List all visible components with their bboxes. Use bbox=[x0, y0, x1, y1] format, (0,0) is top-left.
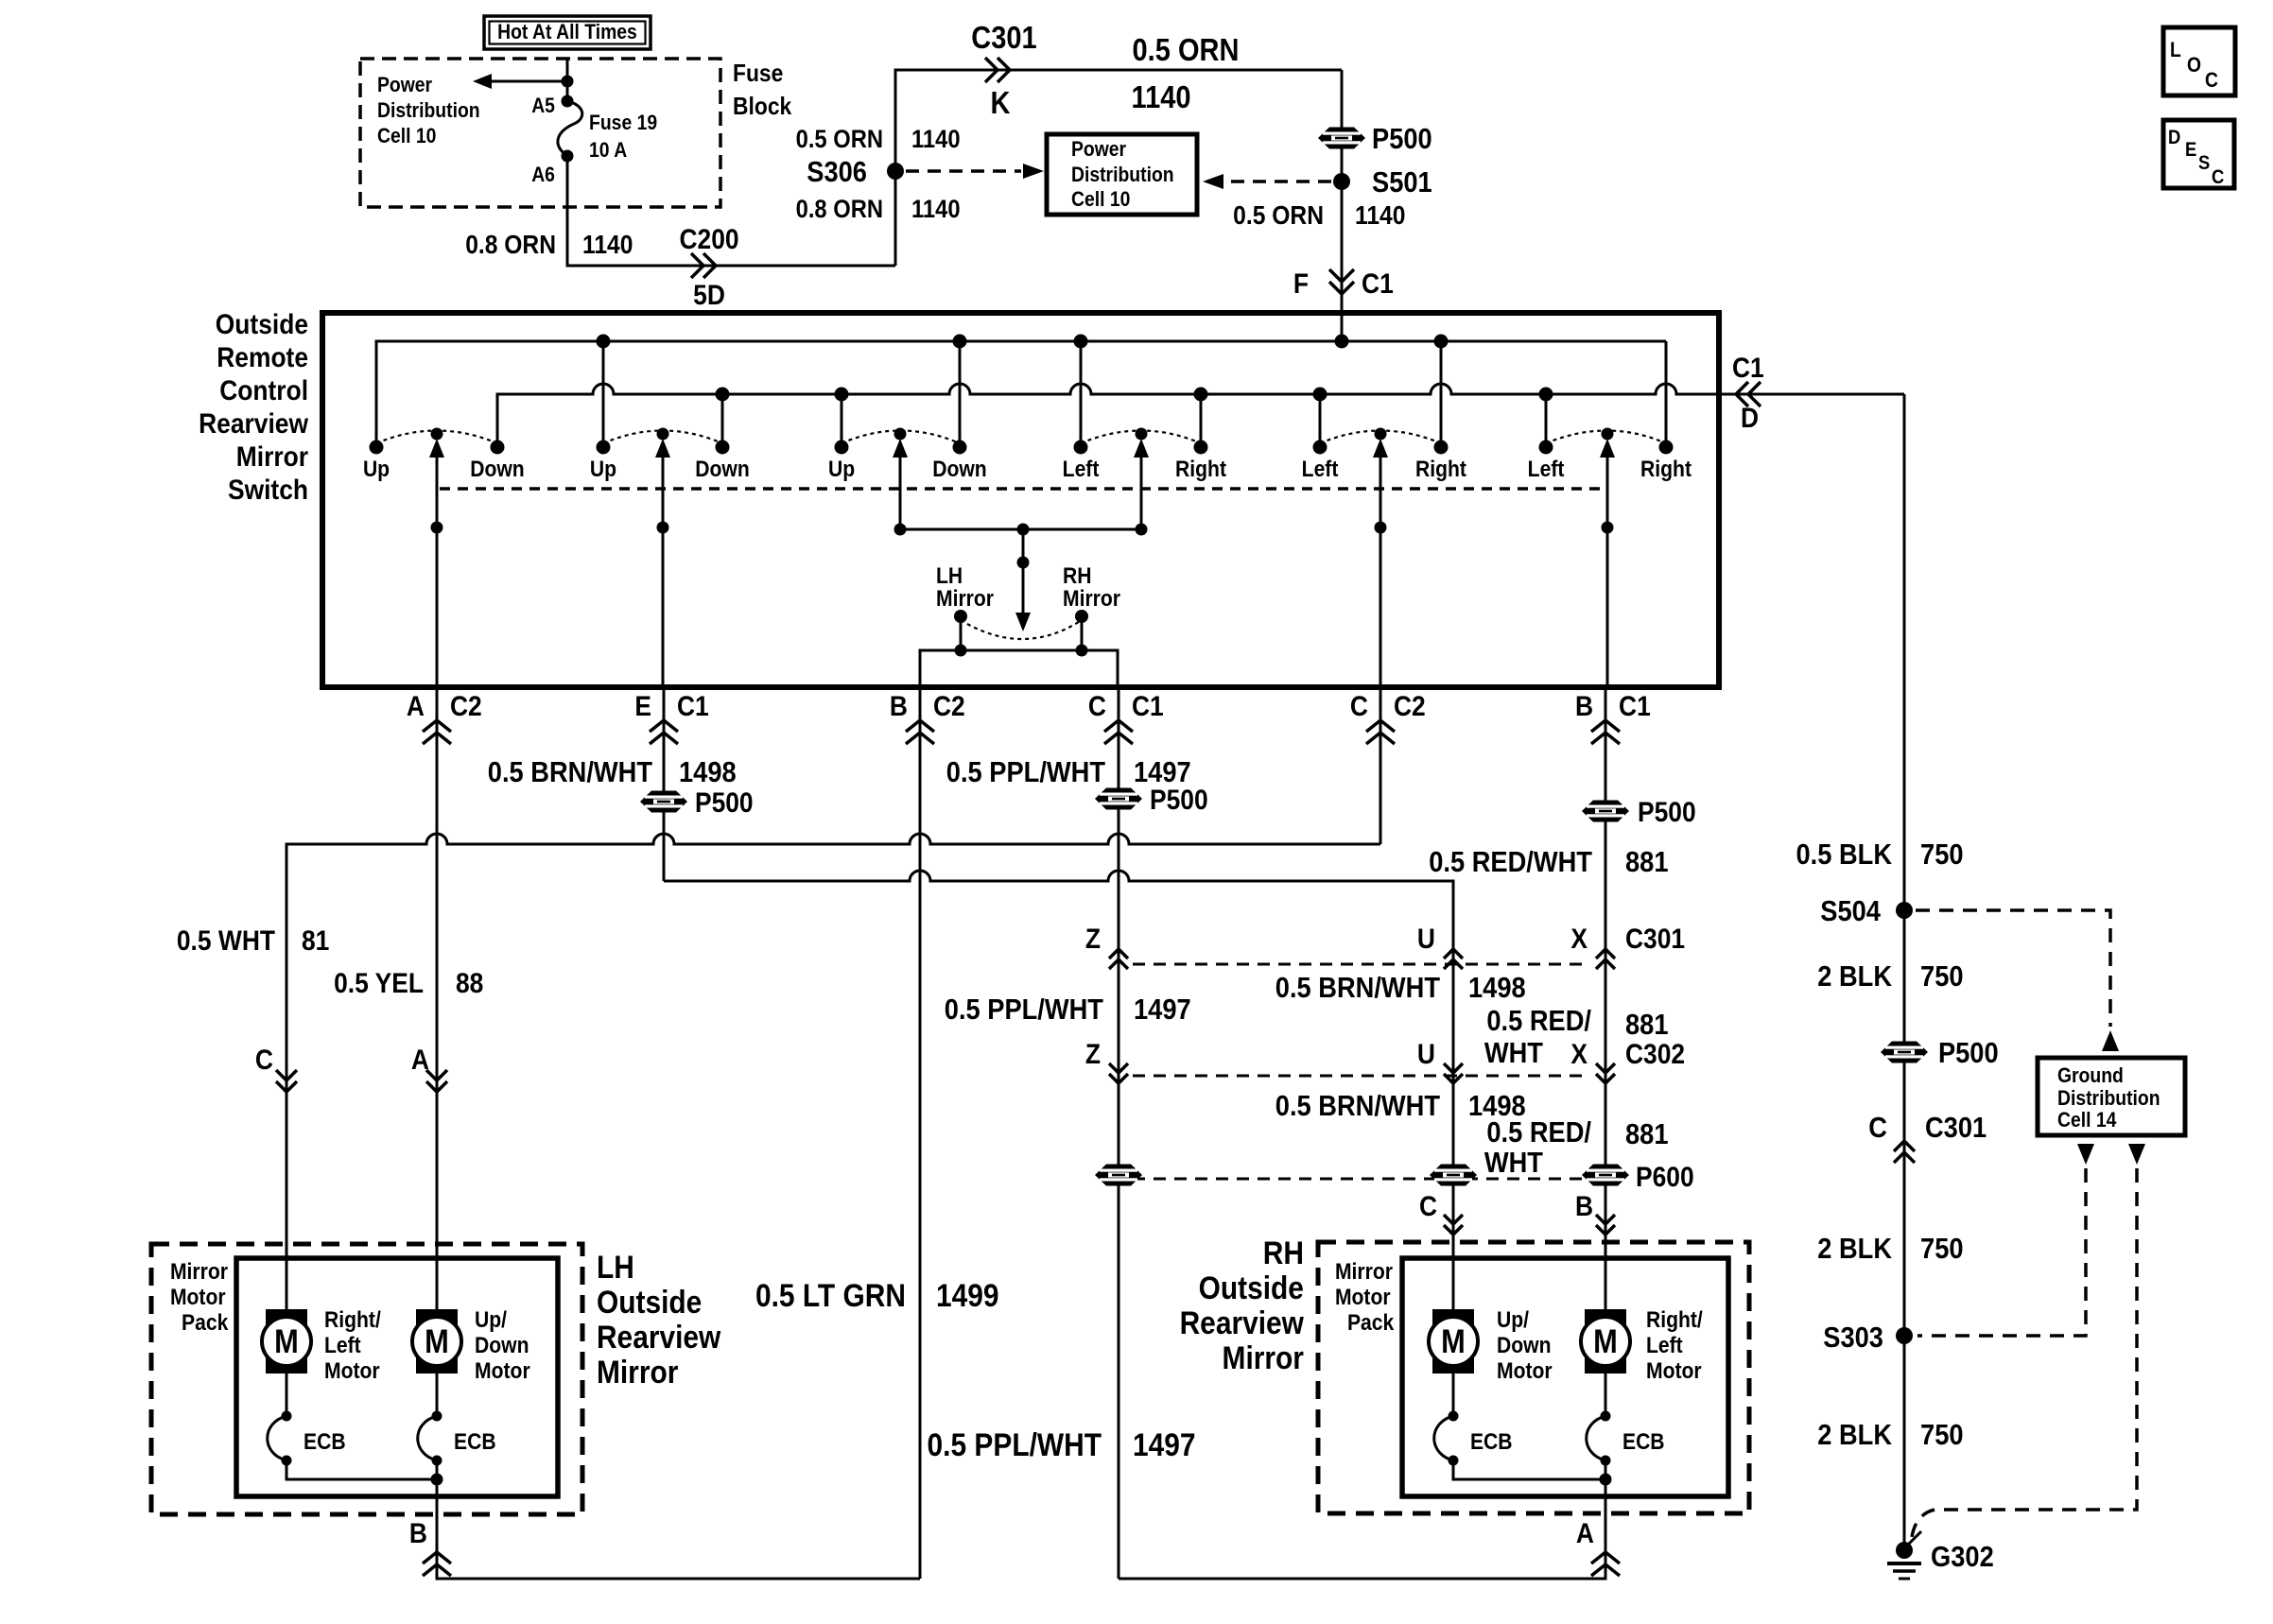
DESC box bbox=[2163, 120, 2234, 188]
svg-text:C1: C1 bbox=[1362, 267, 1394, 299]
LH/RH selector wiper (down) bbox=[1022, 529, 1025, 614]
svg-text:750: 750 bbox=[1920, 960, 1964, 993]
svg-text:B: B bbox=[1575, 1189, 1593, 1221]
bus 1 drop to Right5 bbox=[1440, 341, 1443, 447]
bus 1 drop to Up2 bbox=[602, 341, 605, 447]
wire motor3 to ECB bbox=[1452, 1373, 1455, 1416]
dashed ground distribution to S303 bbox=[1917, 1168, 2086, 1336]
bus 1 right end drop to Right6 bbox=[1665, 341, 1668, 447]
connector C1 pin D chevrons bbox=[1736, 382, 1748, 406]
svg-text:1140: 1140 bbox=[911, 126, 961, 154]
wiper arm pin E (up/down) bbox=[662, 456, 665, 687]
svg-text:750: 750 bbox=[1920, 838, 1964, 871]
pin C C1 wire (0.5 PPL/WHT 1497) bbox=[1118, 687, 1120, 1579]
wiper common bar groups 3-4 bbox=[900, 528, 1141, 531]
svg-text:Rearview: Rearview bbox=[1180, 1304, 1304, 1340]
pin chevrons below box bbox=[423, 720, 451, 732]
svg-text:0.5 BRN/WHT: 0.5 BRN/WHT bbox=[1275, 972, 1440, 1004]
svg-text:C2: C2 bbox=[1394, 689, 1426, 721]
svg-text:B: B bbox=[1575, 689, 1593, 721]
svg-text:Motor: Motor bbox=[324, 1358, 380, 1384]
svg-text:Up: Up bbox=[590, 457, 616, 482]
selector output U-bar bbox=[920, 650, 1118, 687]
svg-text:Pack: Pack bbox=[1347, 1310, 1395, 1336]
dashed S504 to ground distribution bbox=[1916, 910, 2110, 1027]
svg-text:1498: 1498 bbox=[1468, 972, 1526, 1004]
svg-text:S501: S501 bbox=[1372, 166, 1432, 199]
connector C301 chevrons (top) bbox=[998, 58, 1010, 82]
svg-text:Fuse 19: Fuse 19 bbox=[589, 112, 657, 134]
svg-text:0.5 BRN/WHT: 0.5 BRN/WHT bbox=[1275, 1090, 1440, 1122]
svg-text:Z: Z bbox=[1085, 922, 1101, 954]
bus 2 drop to Up3 bbox=[841, 394, 843, 447]
svg-text:881: 881 bbox=[1625, 846, 1669, 878]
LH mirror motor pack box bbox=[236, 1258, 558, 1496]
switch pivot nodes bbox=[431, 428, 443, 441]
svg-text:C2: C2 bbox=[450, 689, 482, 721]
svg-text:C: C bbox=[1419, 1189, 1437, 1221]
svg-text:Left: Left bbox=[1528, 457, 1565, 482]
svg-text:Motor: Motor bbox=[1497, 1358, 1553, 1384]
svg-text:C: C bbox=[1350, 689, 1368, 721]
svg-text:RH: RH bbox=[1063, 563, 1091, 589]
svg-text:WHT: WHT bbox=[1484, 1037, 1543, 1069]
svg-text:0.5 RED/: 0.5 RED/ bbox=[1486, 1116, 1591, 1149]
dashed arrow S306 to Power Distribution Cell 10 bbox=[906, 169, 1021, 173]
svg-text:S: S bbox=[2198, 152, 2210, 174]
wire from fuse A6 down to C200 run bbox=[567, 156, 895, 266]
outside remote control rearview mirror switch box bbox=[322, 313, 1719, 687]
svg-text:S504: S504 bbox=[1820, 895, 1881, 927]
splice S303 bbox=[1896, 1327, 1913, 1344]
RH mirror motor pack box bbox=[1402, 1258, 1728, 1496]
svg-text:B: B bbox=[890, 689, 908, 721]
wire S306 riser bbox=[895, 70, 1342, 266]
pin B C1 wire (0.5 RED/WHT 881) bbox=[1605, 687, 1607, 1310]
svg-text:Rearview: Rearview bbox=[199, 406, 309, 439]
Hot At All Times box bbox=[484, 16, 651, 49]
svg-text:M: M bbox=[1441, 1322, 1466, 1359]
LH up/down motor M2 bbox=[412, 1309, 461, 1373]
chevron A RH mirror bbox=[1591, 1552, 1620, 1564]
connector P600 on PPL/WHT wire bbox=[1095, 1165, 1142, 1186]
svg-text:G302: G302 bbox=[1931, 1541, 1994, 1573]
svg-text:C: C bbox=[255, 1043, 273, 1075]
svg-text:Z: Z bbox=[1085, 1037, 1101, 1069]
C302 chevrons Z U X bbox=[1109, 1074, 1128, 1083]
svg-text:1140: 1140 bbox=[1355, 200, 1405, 231]
svg-text:Left: Left bbox=[324, 1333, 361, 1358]
svg-text:C1: C1 bbox=[677, 689, 709, 721]
svg-text:Pack: Pack bbox=[182, 1310, 229, 1336]
svg-text:C301: C301 bbox=[1625, 922, 1685, 954]
svg-text:0.5 WHT: 0.5 WHT bbox=[177, 924, 275, 956]
svg-text:P500: P500 bbox=[1372, 123, 1432, 155]
splice S306 bbox=[887, 163, 904, 180]
connector P500 on B C1 wire bbox=[1582, 801, 1629, 822]
Power Distribution Cell 10 box bbox=[1047, 134, 1197, 215]
wire from Hot At All Times into fuse bbox=[566, 59, 569, 101]
svg-text:1497: 1497 bbox=[1133, 1426, 1196, 1462]
svg-text:Mirror: Mirror bbox=[1335, 1259, 1393, 1285]
svg-text:Cell 14: Cell 14 bbox=[2057, 1109, 2117, 1132]
svg-text:750: 750 bbox=[1920, 1419, 1964, 1451]
svg-text:Motor: Motor bbox=[170, 1285, 226, 1310]
terminal A6 bbox=[562, 150, 574, 163]
dashed ground distribution to G302 bbox=[1912, 1168, 2137, 1537]
circuit breaker ECB RH2 bbox=[1587, 1411, 1611, 1466]
svg-text:Hot At All Times: Hot At All Times bbox=[497, 21, 637, 43]
svg-text:Mirror: Mirror bbox=[1223, 1339, 1304, 1375]
svg-text:0.5 ORN: 0.5 ORN bbox=[1233, 200, 1324, 231]
bus 1 drop to Down3 bbox=[959, 341, 962, 447]
svg-text:Ground: Ground bbox=[2057, 1064, 2124, 1087]
chevron C C301 ground wire bbox=[1894, 1141, 1915, 1151]
svg-text:E: E bbox=[634, 689, 651, 721]
connector P500 on ground wire bbox=[1881, 1042, 1928, 1063]
svg-text:Right/: Right/ bbox=[1646, 1307, 1703, 1333]
svg-text:81: 81 bbox=[302, 924, 329, 956]
svg-text:A6: A6 bbox=[531, 164, 555, 186]
svg-text:Mirror: Mirror bbox=[936, 586, 994, 612]
RH mirror contact bbox=[1075, 610, 1088, 623]
svg-text:Rearview: Rearview bbox=[597, 1319, 720, 1355]
svg-text:Down: Down bbox=[932, 457, 986, 482]
chevron B into RH pack bbox=[1596, 1225, 1615, 1235]
svg-text:2 BLK: 2 BLK bbox=[1817, 1233, 1892, 1265]
svg-text:Cell 10: Cell 10 bbox=[1071, 188, 1130, 211]
svg-text:5D: 5D bbox=[693, 278, 725, 310]
svg-text:A: A bbox=[1576, 1516, 1594, 1548]
wiper arm pin C C2 bbox=[1379, 456, 1382, 687]
svg-text:Up: Up bbox=[828, 457, 855, 482]
svg-text:Distribution: Distribution bbox=[377, 99, 480, 122]
svg-text:Mirror: Mirror bbox=[1063, 586, 1120, 612]
svg-text:P500: P500 bbox=[1938, 1037, 1999, 1069]
cross bus 1 below box (0.5 WHT 81 branch) bbox=[286, 834, 1380, 1310]
svg-text:1498: 1498 bbox=[679, 756, 737, 788]
svg-text:L: L bbox=[2170, 39, 2181, 61]
arrow to Power Distribution Cell 10 (left) bbox=[492, 80, 567, 83]
circuit breaker ECB LH2 bbox=[418, 1411, 442, 1466]
svg-text:M: M bbox=[1593, 1322, 1618, 1359]
svg-text:C1: C1 bbox=[1132, 689, 1164, 721]
svg-text:P600: P600 bbox=[1636, 1160, 1694, 1192]
svg-text:0.5 ORN: 0.5 ORN bbox=[1133, 32, 1240, 67]
svg-text:Power: Power bbox=[1071, 138, 1126, 161]
svg-text:Up: Up bbox=[363, 457, 390, 482]
RH mirror motor pack dashed box bbox=[1318, 1242, 1749, 1513]
svg-text:0.5 BRN/WHT: 0.5 BRN/WHT bbox=[488, 756, 652, 788]
fuse block dashed box bbox=[360, 59, 720, 207]
svg-text:A5: A5 bbox=[531, 95, 555, 117]
svg-text:K: K bbox=[991, 85, 1011, 120]
svg-text:2 BLK: 2 BLK bbox=[1817, 960, 1892, 993]
svg-text:0.5 PPL/WHT: 0.5 PPL/WHT bbox=[928, 1426, 1102, 1462]
svg-text:Left: Left bbox=[1063, 457, 1100, 482]
svg-text:C: C bbox=[2212, 166, 2224, 188]
svg-text:Up/: Up/ bbox=[1497, 1307, 1530, 1333]
LOC box bbox=[2163, 27, 2235, 95]
svg-text:Down: Down bbox=[470, 457, 524, 482]
dashed arrow S501 to Power Distribution Cell 10 bbox=[1223, 180, 1331, 183]
wire F C1 power feed bbox=[1341, 70, 1344, 341]
svg-text:ECB: ECB bbox=[304, 1429, 346, 1455]
svg-text:750: 750 bbox=[1920, 1233, 1964, 1265]
LH common return wire bbox=[286, 1460, 437, 1479]
svg-text:A: A bbox=[411, 1043, 429, 1075]
svg-text:0.5 RED/: 0.5 RED/ bbox=[1486, 1005, 1591, 1037]
svg-text:ECB: ECB bbox=[1470, 1429, 1513, 1455]
connector C302 dashed line bbox=[1133, 1075, 1588, 1078]
svg-text:C: C bbox=[1868, 1112, 1887, 1144]
svg-text:E: E bbox=[2185, 139, 2196, 161]
connector C1 pin F chevrons bbox=[1329, 282, 1354, 294]
svg-text:Block: Block bbox=[733, 94, 792, 121]
terminal A5 bbox=[562, 95, 574, 108]
wiper arm pin A (up/down LH) bbox=[436, 456, 439, 687]
svg-text:B: B bbox=[409, 1516, 427, 1548]
circuit breaker ECB RH1 bbox=[1434, 1411, 1459, 1466]
svg-text:C2: C2 bbox=[933, 689, 965, 721]
svg-text:C: C bbox=[2205, 69, 2218, 92]
svg-text:10 A: 10 A bbox=[589, 139, 627, 162]
svg-text:A: A bbox=[407, 689, 425, 721]
wire motor1 to ECB bbox=[286, 1373, 288, 1416]
svg-text:D: D bbox=[2168, 127, 2180, 148]
ganged switch dashed linkage bbox=[440, 487, 1607, 491]
svg-text:Down: Down bbox=[475, 1333, 529, 1358]
svg-text:M: M bbox=[274, 1322, 299, 1359]
connector P600 on RED/WHT wire bbox=[1582, 1165, 1629, 1186]
svg-text:0.5 BLK: 0.5 BLK bbox=[1796, 838, 1893, 871]
svg-text:Outside: Outside bbox=[1199, 1270, 1304, 1305]
svg-text:D: D bbox=[1741, 401, 1759, 433]
LH right/left motor M1 bbox=[262, 1309, 311, 1373]
svg-text:881: 881 bbox=[1625, 1118, 1669, 1150]
bus 2 with crossover humps, exits to C1 D bbox=[497, 384, 1904, 447]
svg-text:Motor: Motor bbox=[1646, 1358, 1702, 1384]
svg-text:Right/: Right/ bbox=[324, 1307, 381, 1333]
svg-text:Switch: Switch bbox=[228, 473, 308, 505]
chevron A (0.5 YEL 88) bbox=[426, 1081, 447, 1092]
connector C301 dashed line bbox=[1133, 963, 1588, 966]
svg-text:U: U bbox=[1417, 1037, 1435, 1069]
wire motor4 to ECB bbox=[1605, 1373, 1607, 1416]
pin C C2 wire (0.5 RED/WHT 881 to bus) bbox=[1379, 687, 1382, 844]
wiper arm group3 bbox=[899, 456, 902, 529]
C301 chevrons Z U X bbox=[1109, 949, 1128, 959]
switch contact nodes bbox=[370, 441, 384, 455]
ground wire 750 bbox=[1903, 394, 1906, 1550]
RH up/down motor M3 bbox=[1429, 1309, 1478, 1373]
svg-text:C200: C200 bbox=[679, 222, 738, 254]
svg-text:881: 881 bbox=[1625, 1009, 1669, 1041]
svg-text:1140: 1140 bbox=[1132, 79, 1191, 114]
bus 1 junction nodes bbox=[597, 335, 611, 349]
svg-text:0.5 LT GRN: 0.5 LT GRN bbox=[755, 1277, 906, 1313]
svg-text:C1: C1 bbox=[1619, 689, 1651, 721]
connector P500 on E C1 wire bbox=[640, 791, 687, 813]
splice S501 bbox=[1333, 173, 1350, 190]
connector C200 chevrons bbox=[703, 253, 716, 278]
pin A C2 wire (0.5 YEL 88) bbox=[436, 687, 439, 1310]
svg-text:X: X bbox=[1570, 922, 1588, 954]
svg-text:1497: 1497 bbox=[1134, 993, 1191, 1026]
svg-text:Right: Right bbox=[1640, 457, 1692, 482]
svg-text:Down: Down bbox=[695, 457, 749, 482]
svg-text:C1: C1 bbox=[1732, 351, 1764, 383]
svg-text:C301: C301 bbox=[1925, 1112, 1987, 1144]
svg-text:Power: Power bbox=[377, 74, 432, 96]
svg-text:2 BLK: 2 BLK bbox=[1817, 1419, 1892, 1451]
svg-text:Right: Right bbox=[1415, 457, 1466, 482]
svg-text:Motor: Motor bbox=[1335, 1285, 1391, 1310]
svg-text:C301: C301 bbox=[971, 20, 1036, 55]
pin B C2 wire (0.5 LT GRN 1499) bbox=[919, 687, 922, 1579]
bus 2 drop to Left5 bbox=[1319, 394, 1322, 447]
svg-text:Cell 10: Cell 10 bbox=[377, 125, 436, 147]
svg-text:X: X bbox=[1570, 1037, 1588, 1069]
LH mirror motor pack dashed box bbox=[151, 1244, 582, 1514]
switch contact dashed arcs bbox=[376, 431, 497, 444]
wiper arm group4 bbox=[1140, 456, 1143, 529]
svg-text:S303: S303 bbox=[1823, 1322, 1883, 1354]
svg-text:0.5 PPL/WHT: 0.5 PPL/WHT bbox=[946, 756, 1105, 788]
connector P500 on C C1 wire bbox=[1095, 788, 1142, 810]
chevron C (0.5 WHT 81) bbox=[276, 1081, 297, 1092]
svg-text:1140: 1140 bbox=[582, 230, 633, 260]
ground G302 bbox=[1896, 1542, 1913, 1559]
connector P600 dashed line bbox=[1133, 1178, 1628, 1181]
wiper arm pin B C1 bbox=[1606, 456, 1609, 687]
svg-text:S306: S306 bbox=[807, 156, 867, 188]
bus 2 drop to Down2 bbox=[721, 394, 724, 447]
svg-text:Down: Down bbox=[1497, 1333, 1551, 1358]
svg-text:Left: Left bbox=[1302, 457, 1339, 482]
circuit breaker ECB LH1 bbox=[268, 1411, 292, 1466]
RH right/left motor M4 bbox=[1581, 1309, 1630, 1373]
svg-text:ECB: ECB bbox=[454, 1429, 496, 1455]
wire motor2 to ECB bbox=[436, 1373, 439, 1416]
svg-text:LH: LH bbox=[936, 563, 963, 589]
chevron C into RH pack bbox=[1444, 1225, 1463, 1235]
connector P600 on BRN/WHT wire bbox=[1430, 1165, 1477, 1186]
svg-text:Up/: Up/ bbox=[475, 1307, 508, 1333]
svg-text:0.5 ORN: 0.5 ORN bbox=[796, 126, 883, 154]
svg-text:Mirror: Mirror bbox=[597, 1354, 678, 1390]
svg-text:Remote: Remote bbox=[217, 340, 308, 372]
svg-text:Right: Right bbox=[1175, 457, 1226, 482]
svg-text:C: C bbox=[1088, 689, 1106, 721]
bus 1 drop to Left4 bbox=[1080, 341, 1083, 447]
pin E C1 wire (0.5 BRN/WHT 1498) bbox=[663, 687, 666, 881]
svg-text:1140: 1140 bbox=[911, 196, 961, 224]
svg-text:0.5 RED/WHT: 0.5 RED/WHT bbox=[1429, 846, 1592, 878]
svg-text:0.8 ORN: 0.8 ORN bbox=[465, 230, 556, 260]
svg-text:Outside: Outside bbox=[216, 307, 308, 339]
svg-text:P500: P500 bbox=[1638, 795, 1696, 827]
fuse F19 element bbox=[558, 101, 582, 156]
node on wire at arrow bbox=[562, 76, 574, 88]
svg-text:Mirror: Mirror bbox=[170, 1259, 228, 1285]
svg-text:Fuse: Fuse bbox=[733, 60, 783, 88]
LH/RH selector dashed arc bbox=[961, 620, 1082, 639]
splice S504 bbox=[1896, 902, 1913, 919]
LH mirror contact bbox=[954, 610, 967, 623]
svg-text:WHT: WHT bbox=[1484, 1147, 1543, 1179]
svg-text:Motor: Motor bbox=[475, 1358, 530, 1384]
connector P500 on power feed bbox=[1318, 128, 1365, 149]
svg-text:P500: P500 bbox=[695, 786, 754, 818]
svg-text:RH: RH bbox=[1263, 1235, 1304, 1270]
svg-text:Left: Left bbox=[1646, 1333, 1683, 1358]
bus 2 drop to Left6 bbox=[1545, 394, 1548, 447]
svg-text:0.5 PPL/WHT: 0.5 PPL/WHT bbox=[945, 993, 1103, 1026]
svg-text:F: F bbox=[1293, 267, 1309, 299]
svg-text:U: U bbox=[1417, 922, 1435, 954]
svg-text:88: 88 bbox=[456, 966, 483, 998]
svg-text:Distribution: Distribution bbox=[1071, 164, 1174, 186]
RH common return wire bbox=[1453, 1460, 1605, 1479]
svg-text:Control: Control bbox=[219, 373, 308, 406]
svg-text:P500: P500 bbox=[1150, 783, 1208, 815]
bus 2 junction nodes bbox=[716, 388, 730, 402]
svg-text:0.5 YEL: 0.5 YEL bbox=[334, 966, 424, 998]
svg-text:0.8 ORN: 0.8 ORN bbox=[796, 196, 883, 224]
bus 1 (power bus) bbox=[376, 341, 1666, 447]
svg-text:LH: LH bbox=[597, 1249, 634, 1285]
svg-text:ECB: ECB bbox=[1622, 1429, 1665, 1455]
chevron B LH mirror bbox=[423, 1552, 451, 1564]
svg-text:O: O bbox=[2187, 54, 2201, 77]
svg-text:Mirror: Mirror bbox=[236, 440, 308, 472]
bus 2 drop to Right4 bbox=[1200, 394, 1203, 447]
svg-text:Distribution: Distribution bbox=[2057, 1087, 2160, 1110]
svg-text:C302: C302 bbox=[1625, 1037, 1685, 1069]
cross bus 2 below box (BRN/WHT to RH motor) bbox=[664, 871, 1453, 1310]
svg-text:1499: 1499 bbox=[936, 1277, 999, 1313]
svg-text:Outside: Outside bbox=[597, 1284, 702, 1320]
svg-text:M: M bbox=[425, 1322, 449, 1359]
Ground Distribution Cell 14 box bbox=[2038, 1058, 2185, 1135]
